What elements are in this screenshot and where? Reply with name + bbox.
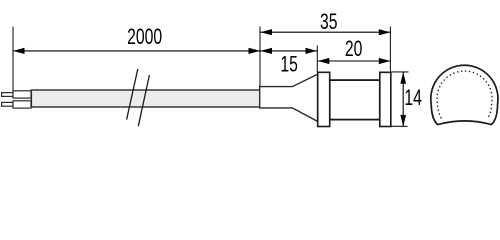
svg-text:35: 35 (320, 9, 338, 34)
svg-text:20: 20 (345, 37, 363, 62)
svg-text:14: 14 (404, 85, 422, 110)
svg-text:2000: 2000 (127, 24, 162, 49)
svg-text:15: 15 (280, 52, 298, 77)
